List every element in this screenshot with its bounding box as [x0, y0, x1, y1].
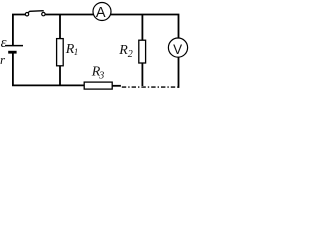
- svg-text:ε: ε: [1, 35, 7, 51]
- svg-text:V: V: [173, 42, 182, 57]
- svg-text:A: A: [96, 5, 106, 21]
- svg-text:2: 2: [128, 49, 133, 60]
- svg-text:R: R: [118, 43, 128, 58]
- svg-text:3: 3: [98, 71, 104, 82]
- svg-text:1: 1: [74, 47, 79, 57]
